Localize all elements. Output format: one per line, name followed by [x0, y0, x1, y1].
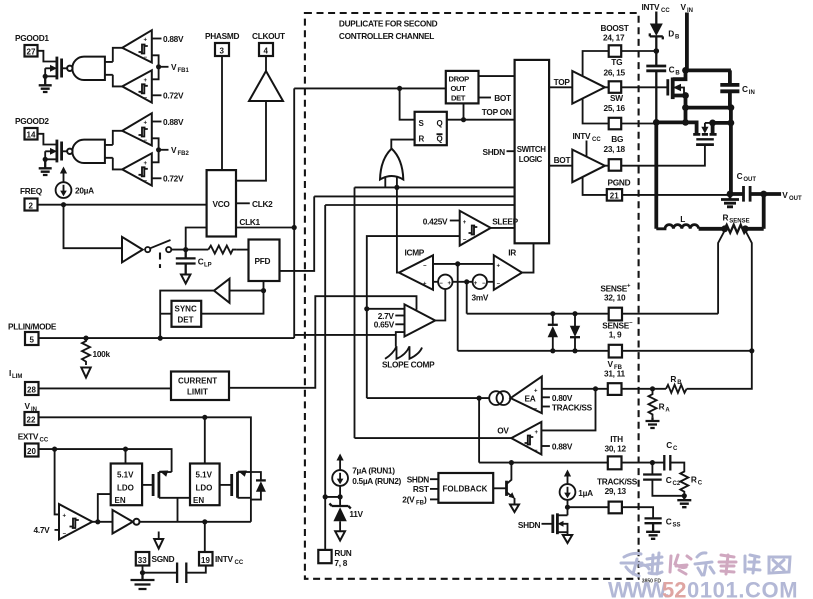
svg-text:BOOST: BOOST	[601, 23, 629, 33]
node RC bottom	[682, 493, 687, 498]
comparator (0.72V lower, ch1)	[122, 70, 152, 102]
svg-text:21: 21	[610, 191, 619, 200]
svg-text:Q: Q	[437, 135, 443, 144]
svg-text:OUT: OUT	[789, 196, 802, 202]
wire ILIM to CURRENT LIMIT	[39, 387, 172, 389]
svg-text:25, 16: 25, 16	[604, 103, 626, 113]
wire LDO2 top feed	[204, 417, 206, 463]
svg-text:C: C	[666, 475, 672, 485]
wire OV out to bus	[355, 437, 512, 439]
ground (Q2 source)	[39, 159, 52, 175]
svg-text:V: V	[25, 401, 31, 411]
transistor foldback NPN	[493, 487, 505, 489]
wire ITH line	[479, 462, 608, 464]
wire EA plus to VFB	[542, 388, 608, 390]
svg-text:−: −	[534, 407, 538, 413]
dashed duplicate-channel box	[305, 13, 639, 579]
svg-text:100k: 100k	[93, 349, 111, 359]
node VOUT	[760, 191, 767, 198]
driver TG (triangle)	[572, 71, 605, 104]
amp EA (points left)	[511, 377, 542, 414]
node SW	[653, 119, 660, 126]
block FOLDBACK	[438, 473, 493, 503]
svg-text:DUPLICATE FOR SECOND: DUPLICATE FOR SECOND	[339, 19, 438, 29]
svg-text:32, 10: 32, 10	[604, 292, 626, 302]
wire comp minus to VFB2 node	[152, 138, 159, 150]
wire S input	[400, 88, 415, 119]
pin 28 (ILIM)	[25, 382, 39, 395]
svg-text:0.5µA (RUN2): 0.5µA (RUN2)	[352, 476, 401, 486]
inverter (PLL input buffer)	[122, 237, 143, 262]
wire RB to VOUT sense	[687, 351, 752, 389]
comparator (0.88V upper, ch2)	[122, 113, 152, 145]
wire 0.88V stub	[541, 445, 550, 447]
node BOOST	[654, 48, 660, 54]
switch contact circles	[145, 247, 150, 252]
wire BOOST pin to DB node	[621, 50, 656, 52]
capacitor CIN	[720, 70, 739, 107]
wire amp lower input	[396, 332, 405, 346]
svg-text:1µA: 1µA	[578, 488, 593, 498]
node S feed	[397, 86, 402, 91]
svg-text:C: C	[742, 84, 748, 94]
wire CLK2 stub	[236, 202, 250, 204]
wire slope-comp feed	[294, 334, 396, 336]
node PFD bottom junction	[261, 288, 266, 293]
wire logic bus y196	[314, 195, 514, 197]
wire comp plus to VFB2 node	[152, 150, 159, 163]
pin TRACK/SS	[609, 502, 622, 514]
svg-text:+: +	[144, 161, 148, 167]
wire IR out to switch logic	[522, 243, 534, 272]
svg-text:PGOOD2: PGOOD2	[15, 116, 49, 126]
svg-text:IR: IR	[508, 248, 516, 258]
wire buffer input from PFD node	[230, 290, 264, 292]
inverter (EN logic)	[113, 510, 133, 534]
svg-text:SHDN: SHDN	[407, 474, 430, 484]
wire 0.72V stub	[152, 94, 162, 96]
wire CURRENT LIMIT out	[229, 296, 417, 388]
node FREQ junction	[61, 202, 66, 207]
svg-text:−: −	[63, 532, 67, 538]
block SWITCH LOGIC	[515, 60, 550, 243]
svg-text:+: +	[463, 220, 467, 226]
capacitor CC2	[651, 463, 653, 475]
svg-text:B: B	[675, 34, 680, 40]
svg-text:CLK2: CLK2	[252, 199, 273, 209]
svg-text:30, 12: 30, 12	[605, 443, 627, 453]
ground (Q1 source)	[39, 76, 52, 92]
svg-text:LIM: LIM	[12, 374, 22, 380]
node Q line	[461, 117, 466, 122]
svg-text:5.1V: 5.1V	[117, 471, 134, 480]
wire pin33 down	[142, 566, 144, 573]
svg-text:SHDN: SHDN	[518, 520, 541, 530]
svg-text:V: V	[171, 145, 177, 155]
svg-text:CC: CC	[592, 137, 601, 143]
node slope input	[364, 306, 369, 311]
wire 0.80V stub	[542, 396, 550, 398]
node sense minus drop	[455, 261, 460, 266]
capacitor COUT	[744, 186, 751, 202]
node CLK1/bus	[292, 225, 297, 230]
svg-text:4: 4	[264, 47, 269, 56]
diode zener 11V	[339, 497, 341, 506]
diode DB (schottky)	[655, 12, 657, 25]
wire SLEEP out	[491, 227, 515, 229]
svg-text:+: +	[63, 513, 67, 519]
svg-text:7, 8: 7, 8	[334, 558, 347, 568]
svg-text:I: I	[9, 368, 11, 378]
switch arm	[150, 240, 170, 248]
wire loop node up to VCO left	[186, 228, 207, 250]
svg-text:SW: SW	[610, 93, 623, 103]
wire L to RSENSE	[699, 227, 725, 231]
svg-text:RST: RST	[413, 484, 429, 494]
svg-text:LDO: LDO	[117, 484, 134, 493]
svg-text:0.88V: 0.88V	[163, 117, 184, 127]
ground (power)	[721, 194, 739, 207]
svg-text:−: −	[534, 448, 538, 454]
node EA/OV tap	[593, 386, 598, 391]
svg-text:0.88V: 0.88V	[163, 34, 184, 44]
wire PFD out to switch-logic feed	[280, 196, 315, 271]
wire CC to RC	[670, 463, 684, 471]
capacitor CC	[664, 455, 670, 471]
diode (P2 body)	[251, 472, 261, 500]
node foldback collector	[509, 460, 514, 465]
transistor Q1 (PGOOD1 open-drain NMOS)	[56, 57, 59, 80]
svg-text:LOGIC: LOGIC	[519, 155, 543, 164]
wire FREQ to VCO	[38, 204, 207, 206]
pin SENSE-	[609, 345, 622, 358]
wire ICMP top line	[433, 263, 494, 265]
capacitor CSS	[645, 518, 662, 523]
current source 1uA	[567, 476, 569, 485]
svg-text:33: 33	[138, 556, 147, 565]
node TRACK/SS	[565, 505, 570, 510]
wire 0.88V stub ch2	[152, 121, 162, 123]
wire PLL bus vertical x294	[293, 88, 295, 338]
svg-text:19: 19	[201, 556, 210, 565]
wire TOP out	[549, 86, 572, 88]
svg-text:V: V	[681, 2, 687, 12]
wire pin27 to Q1 drain	[38, 51, 57, 62]
wire LDO1 top feed	[125, 449, 127, 463]
svg-text:SENSE: SENSE	[729, 218, 749, 224]
svg-text:CLKOUT: CLKOUT	[252, 31, 285, 41]
svg-text:R: R	[723, 212, 729, 222]
svg-text:−: −	[144, 138, 148, 144]
wire CLKOUT pin to buffer	[265, 56, 267, 71]
pin 22 (VIN)	[25, 412, 39, 425]
node ITH drive	[477, 396, 482, 401]
pin VFB	[608, 383, 622, 395]
wire slope input	[367, 308, 405, 310]
transistor P1 (EXTVCC pass PMOS)	[152, 474, 155, 496]
wire buffer out to PLLIN	[160, 291, 214, 339]
svg-text:R: R	[670, 374, 676, 384]
svg-text:23, 18: 23, 18	[604, 144, 626, 154]
node RA tap	[650, 386, 655, 391]
block PFD	[249, 240, 280, 282]
svg-text:TOP: TOP	[554, 77, 571, 87]
svg-text:DROP: DROP	[449, 75, 470, 84]
wire P2 source down	[250, 472, 252, 522]
ground arrow (foldback emitter)	[514, 498, 516, 505]
svg-text:VCO: VCO	[213, 199, 231, 209]
wire EN riser to LDO2	[177, 498, 179, 522]
wire VOUT down to RSENSE	[762, 194, 766, 229]
svg-text:D: D	[668, 28, 674, 38]
node EXTVCC comp tap	[52, 447, 57, 452]
svg-text:R: R	[659, 401, 665, 411]
latch SR	[415, 112, 447, 145]
capacitor CB	[646, 66, 666, 71]
wire VOUT	[764, 192, 781, 196]
pin 19 (INTVCC)	[199, 552, 213, 566]
buffer (sync, points left)	[214, 279, 230, 303]
svg-text:5: 5	[30, 336, 35, 345]
svg-text:A: A	[665, 407, 670, 413]
block VCO	[207, 170, 236, 236]
wire DB to CB	[655, 36, 657, 66]
svg-text:−: −	[439, 281, 443, 287]
svg-text:CONTROLLER CHANNEL: CONTROLLER CHANNEL	[339, 31, 434, 41]
svg-text:−: −	[144, 178, 148, 184]
node RSENSE left	[721, 225, 728, 232]
pin 27 (PGOOD1)	[25, 45, 38, 57]
wire sense+ tap	[718, 231, 725, 314]
svg-text:EA: EA	[525, 393, 536, 403]
wire PFD bottom / SYNC DET	[201, 281, 263, 314]
svg-text:27: 27	[27, 48, 36, 57]
wire OV plus to VFB	[541, 389, 595, 431]
pin BG	[609, 159, 622, 171]
svg-text:+: +	[535, 430, 539, 436]
svg-text:C: C	[666, 440, 672, 450]
svg-text:SWITCH: SWITCH	[517, 145, 546, 154]
node VIN rail	[682, 67, 689, 74]
wire pin14 to Q2 drain	[38, 134, 57, 145]
wire SW pin	[621, 123, 656, 125]
wire TRACK/SS stub	[542, 406, 550, 408]
pin RUN 7,8	[318, 550, 331, 563]
current source 7uA/0.5uA (RUN)	[339, 460, 341, 471]
ground (SGND)	[131, 573, 155, 589]
wire VIN drop	[685, 13, 689, 71]
wire RSENSE to VOUT	[745, 227, 763, 231]
pin TG	[609, 81, 622, 93]
wire cap to SGND	[143, 572, 178, 574]
svg-text:V: V	[782, 190, 788, 200]
wire driver low rail to SW	[583, 99, 609, 124]
capacitor CLP	[176, 250, 196, 275]
wire VFB to divider	[622, 388, 667, 390]
svg-text:SGND: SGND	[152, 554, 175, 564]
wire 0.72V stub ch2	[152, 177, 162, 179]
comparator ICMP (points left)	[399, 255, 433, 289]
node sense plus drop	[464, 279, 469, 284]
svg-text:PFD: PFD	[255, 256, 271, 266]
svg-text:EN: EN	[193, 496, 204, 505]
svg-text:+: +	[474, 281, 478, 287]
svg-text:LDO: LDO	[196, 484, 213, 493]
svg-text:FB1: FB1	[178, 68, 190, 74]
svg-text:CURRENT: CURRENT	[178, 377, 217, 386]
wire VIN rail	[686, 69, 731, 73]
pin ITH	[608, 456, 622, 469]
svg-text:7µA (RUN1): 7µA (RUN1)	[352, 465, 395, 475]
svg-text:−: −	[423, 263, 427, 269]
pin 14 (PGOOD2)	[25, 128, 38, 140]
svg-text:FREQ: FREQ	[20, 186, 43, 196]
node sense-/RB junction	[749, 348, 754, 353]
node M2 source	[709, 120, 716, 127]
svg-text:SS: SS	[673, 522, 681, 528]
svg-text:3: 3	[220, 47, 225, 56]
wire LDO1 gate	[142, 484, 152, 486]
wire BOOST to driver	[583, 51, 609, 76]
node VIN/LDO2	[202, 415, 207, 420]
svg-text:C: C	[198, 257, 204, 267]
block DROP OUT DET	[446, 71, 479, 104]
wire comp outputs to NAND2 inputs	[113, 131, 122, 170]
svg-text:C: C	[698, 480, 703, 486]
svg-text:14: 14	[27, 131, 36, 140]
wire Q to switch logic	[447, 119, 515, 121]
svg-text:TOP ON: TOP ON	[482, 107, 512, 117]
wire CB to SW node	[655, 71, 657, 123]
svg-text:IN: IN	[749, 90, 755, 96]
wire resistor to PFD	[236, 249, 248, 251]
svg-text:C: C	[737, 171, 743, 181]
dashed sync control link	[159, 253, 161, 269]
svg-text:0.88V: 0.88V	[552, 442, 573, 452]
svg-text:−: −	[144, 55, 148, 61]
svg-text:5.1V: 5.1V	[196, 471, 213, 480]
svg-text:0.72V: 0.72V	[163, 91, 184, 101]
wire OR inputs	[385, 176, 397, 187]
wire R input	[391, 140, 414, 149]
node VFB1	[156, 64, 161, 69]
wire INTVCC to driver	[586, 141, 588, 159]
svg-text:0.80V: 0.80V	[552, 393, 573, 403]
svg-text:LIMIT: LIMIT	[187, 388, 208, 397]
ground (CSS)	[646, 523, 660, 539]
svg-text:−: −	[482, 281, 486, 287]
resistor RB	[666, 385, 687, 393]
pin BOOST	[609, 45, 622, 57]
wire logic bus y187	[355, 186, 515, 188]
svg-text:0.72V: 0.72V	[163, 174, 184, 184]
svg-text:2(V: 2(V	[402, 494, 415, 504]
node diode clamp taps	[550, 311, 555, 316]
pin 33 (SGND)	[136, 552, 150, 566]
node sync tap	[158, 336, 163, 341]
buffer (CLKOUT driver)	[249, 71, 283, 101]
svg-text:29, 13: 29, 13	[605, 486, 627, 496]
wire comp2 plus to VFB1 node	[152, 67, 159, 80]
svg-text:OV: OV	[497, 426, 509, 436]
svg-text:CC: CC	[40, 438, 49, 444]
pin SW	[609, 118, 622, 130]
svg-text:+: +	[534, 389, 538, 395]
wire 1uA to TRACK/SS	[567, 500, 569, 515]
svg-text:0.65V: 0.65V	[374, 320, 395, 330]
wire NAND inputs	[105, 62, 113, 75]
node OR input junction	[394, 185, 399, 190]
svg-text:BOT: BOT	[554, 155, 571, 165]
wire 0.88V stub	[152, 38, 162, 40]
wire M2 source to CIN return	[713, 121, 731, 125]
node loop filter	[183, 247, 188, 252]
node 100k tap	[83, 336, 88, 341]
svg-text:4.7V: 4.7V	[34, 525, 51, 535]
wire bus x354 vertical	[354, 187, 356, 438]
pin 4 (CLKOUT)	[259, 43, 273, 56]
wire sense- tap	[745, 231, 752, 351]
svg-text:R: R	[419, 135, 425, 144]
svg-text:−: −	[629, 320, 633, 326]
comparator (0.88V upper, ch1)	[122, 30, 152, 62]
node output ground	[727, 191, 734, 198]
inductor L	[656, 225, 698, 229]
wire ICMP plus stub	[433, 281, 438, 283]
amp slope recovery	[405, 304, 436, 336]
pin 2 (FREQ)	[25, 199, 38, 211]
node SW-M1 junction	[682, 119, 689, 126]
svg-text:FOLDBACK: FOLDBACK	[443, 485, 488, 494]
wire driver low rail to PGND	[583, 177, 607, 195]
wire EXTVCC to 4.7V comparator	[55, 449, 59, 514]
resistor RA	[649, 389, 657, 418]
svg-text:CC: CC	[661, 8, 670, 14]
NAND gate (PGOOD1, mirrored output-left)	[72, 57, 105, 80]
svg-text:26, 15: 26, 15	[604, 67, 626, 77]
wire sense minus vertical	[457, 264, 459, 351]
wire comparator out	[92, 521, 112, 523]
wire BOT stub	[479, 97, 492, 99]
svg-text:SLEEP: SLEEP	[492, 217, 518, 227]
wire PGND to output ground	[622, 194, 730, 196]
wire inverter out to INTVCC node	[140, 521, 251, 523]
current source 20uA	[63, 172, 65, 182]
svg-text:52: 52	[662, 578, 686, 599]
wire source to RUN bus	[325, 486, 340, 497]
resistor RSENSE	[725, 225, 747, 233]
wire FREQ node down to inverter	[64, 205, 123, 249]
node return rail	[728, 120, 735, 127]
wire CC2 to RC bottom	[652, 480, 684, 496]
svg-text:WWW.: WWW.	[608, 578, 669, 599]
svg-text:LP: LP	[204, 263, 212, 269]
svg-text:OUT: OUT	[743, 177, 756, 183]
wire VIN rail	[39, 417, 251, 472]
resistor 100k	[82, 338, 90, 365]
transistor M1 top NMOS	[666, 79, 669, 95]
wire RUN bus vertical	[324, 205, 326, 550]
node comp out	[95, 519, 100, 524]
svg-text:−: −	[463, 238, 467, 244]
pin PGND 21	[607, 189, 622, 201]
svg-text:2: 2	[29, 201, 34, 210]
ground (RA)	[646, 417, 660, 428]
wire EXTVCC rail	[39, 449, 172, 472]
wire BOT out	[549, 165, 572, 167]
svg-text:28: 28	[27, 386, 36, 395]
svg-text:OUT: OUT	[451, 84, 467, 93]
